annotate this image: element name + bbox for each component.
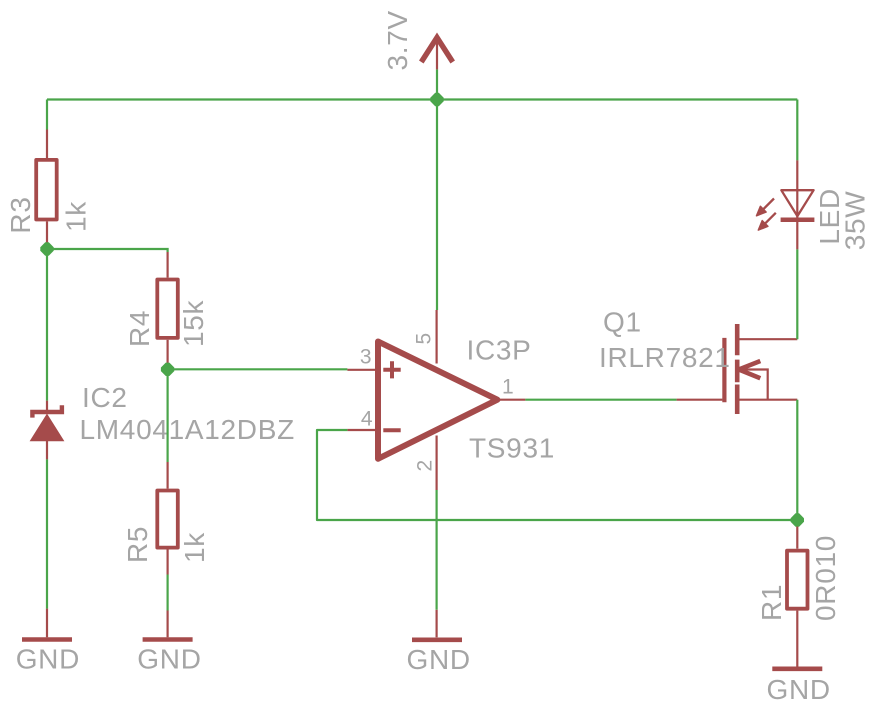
wire IC2 to GND — [46, 459, 48, 608]
ground symbol 4 — [772, 666, 822, 671]
svg-text:R4: R4 — [124, 310, 155, 347]
wire top net to LED — [796, 100, 798, 161]
svg-text:R5: R5 — [122, 526, 153, 563]
svg-text:4: 4 — [361, 408, 373, 431]
svg-text:1k: 1k — [61, 201, 92, 232]
wire supply to op-amp pin 5 — [436, 100, 438, 311]
wire R5 to GND — [167, 575, 169, 611]
junction R4/R5/op-amp node — [161, 363, 174, 376]
wire junction to R4 — [47, 249, 168, 252]
svg-text:3.7V: 3.7V — [382, 10, 413, 70]
wire junction to R1 — [796, 520, 798, 527]
svg-text:1: 1 — [502, 376, 514, 399]
wire Q1 source to sense junction — [796, 400, 798, 520]
junction R3/R4/IC2 node — [40, 242, 53, 255]
ground symbol 3 — [412, 610, 462, 640]
supply 3.7V symbol — [421, 38, 452, 100]
svg-text:GND: GND — [407, 644, 471, 675]
svg-text:R3: R3 — [5, 196, 36, 233]
wire junction to IC2 — [46, 249, 48, 401]
junction sense node — [791, 513, 804, 526]
svg-text:0R010: 0R010 — [810, 535, 841, 621]
svg-text:15k: 15k — [178, 299, 209, 347]
resistor R4 — [157, 252, 178, 365]
svg-text:IRLR7821: IRLR7821 — [599, 342, 731, 373]
LED diode — [757, 160, 815, 249]
wire top horizontal net from R3 to LED — [47, 98, 797, 100]
wire op-amp pin 4 feedback to sense node — [317, 430, 797, 520]
resistor R1 — [787, 527, 808, 667]
svg-text:GND: GND — [16, 644, 80, 675]
ground symbol 1 — [22, 609, 72, 640]
svg-text:R1: R1 — [756, 584, 787, 621]
resistor R5 — [157, 462, 178, 575]
svg-text:3: 3 — [360, 346, 372, 369]
svg-text:LM4041A12DBZ: LM4041A12DBZ — [80, 414, 295, 445]
op-amp IC3P — [347, 310, 525, 490]
svg-text:TS931: TS931 — [469, 433, 555, 464]
wire op-amp output to Q1 gate — [525, 399, 676, 401]
resistor R3 — [36, 130, 57, 250]
wire op-amp pin 2 to GND — [436, 490, 438, 610]
zener reference IC2 — [31, 401, 64, 460]
svg-text:35W: 35W — [840, 191, 871, 251]
wire R4 to junction to R5 — [167, 365, 169, 463]
transistor Q1 — [677, 324, 798, 414]
wire left column top (R3 to top net) — [46, 100, 48, 130]
svg-text:IC3P: IC3P — [467, 335, 532, 366]
wire LED to Q1 drain — [796, 249, 798, 339]
svg-text:GND: GND — [137, 644, 201, 675]
svg-text:IC2: IC2 — [82, 382, 128, 413]
ground symbol 2 — [143, 611, 193, 640]
junction at 3.7V net — [430, 93, 443, 106]
svg-text:GND: GND — [767, 674, 831, 705]
svg-text:5: 5 — [413, 333, 436, 345]
wire junction to op-amp pin 3 — [168, 368, 348, 370]
svg-text:2: 2 — [414, 460, 437, 472]
svg-text:1k: 1k — [179, 532, 210, 563]
svg-text:Q1: Q1 — [603, 307, 642, 338]
